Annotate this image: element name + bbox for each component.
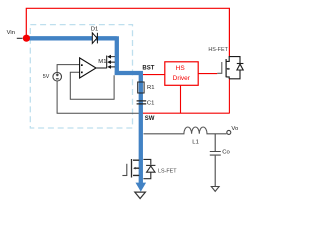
Vin terminal lead bbox=[17, 37, 23, 39]
wire: Vin red feed to HS-FET drain bbox=[26, 8, 229, 56]
transistor LS-FET bbox=[122, 159, 155, 179]
voltage source 5V bbox=[53, 72, 62, 81]
svg-text:D1: D1 bbox=[91, 27, 99, 33]
terminal Vo bbox=[227, 130, 231, 134]
wire: blue bus Vin through D1, M1, R1, C1 to LS-FET bbox=[26, 36, 143, 183]
wire: HS Driver output to HS-FET gate bbox=[198, 73, 217, 75]
svg-text:BST: BST bbox=[142, 66, 154, 72]
inductor L1 bbox=[144, 127, 227, 134]
svg-text:Driver: Driver bbox=[173, 75, 191, 82]
svg-text:C1: C1 bbox=[147, 101, 155, 107]
transistor M1 bbox=[107, 56, 115, 69]
wire: 5V source return to SW net bbox=[57, 81, 140, 113]
svg-text:SW: SW bbox=[145, 116, 155, 122]
svg-text:5V: 5V bbox=[43, 74, 50, 80]
wire: 5V source + terminal to op-amp bbox=[57, 65, 80, 73]
svg-text:HS-FET: HS-FET bbox=[208, 47, 228, 53]
wire: BST node to HS Driver bbox=[143, 74, 165, 76]
svg-text:LS-FET: LS-FET bbox=[158, 169, 177, 175]
resistor R1 bbox=[138, 82, 144, 93]
svg-text:HS: HS bbox=[176, 65, 186, 72]
capacitor Co bbox=[210, 134, 221, 187]
svg-text:R1: R1 bbox=[147, 85, 155, 91]
capacitor C1 bbox=[137, 101, 147, 104]
svg-text:L1: L1 bbox=[192, 139, 199, 145]
wire: SW node red rail bbox=[141, 112, 230, 114]
ground under LS-FET bbox=[135, 192, 146, 198]
ground under Co bbox=[211, 187, 219, 192]
arrow: blue current path arrowhead bbox=[136, 183, 147, 192]
op-amp U1 bbox=[80, 58, 96, 78]
svg-text:Vin: Vin bbox=[7, 30, 15, 36]
wire: HS driver low-side reference pin bbox=[180, 85, 182, 113]
svg-text:Co: Co bbox=[222, 149, 230, 155]
wire: op-amp output to M1 gate bbox=[96, 67, 107, 69]
diode D1 bbox=[92, 33, 97, 44]
HS Driver block bbox=[165, 62, 198, 86]
node: Vin junction dot bbox=[23, 35, 30, 42]
wire: op-amp feedback loop to M1 source bbox=[70, 72, 114, 99]
dashed LDO/charge-pump boundary box bbox=[30, 25, 132, 128]
svg-text:M1: M1 bbox=[98, 59, 106, 65]
svg-text:Vo: Vo bbox=[231, 126, 239, 132]
transistor HS-FET bbox=[217, 56, 243, 79]
wire: HS-FET source to SW bbox=[228, 79, 230, 114]
